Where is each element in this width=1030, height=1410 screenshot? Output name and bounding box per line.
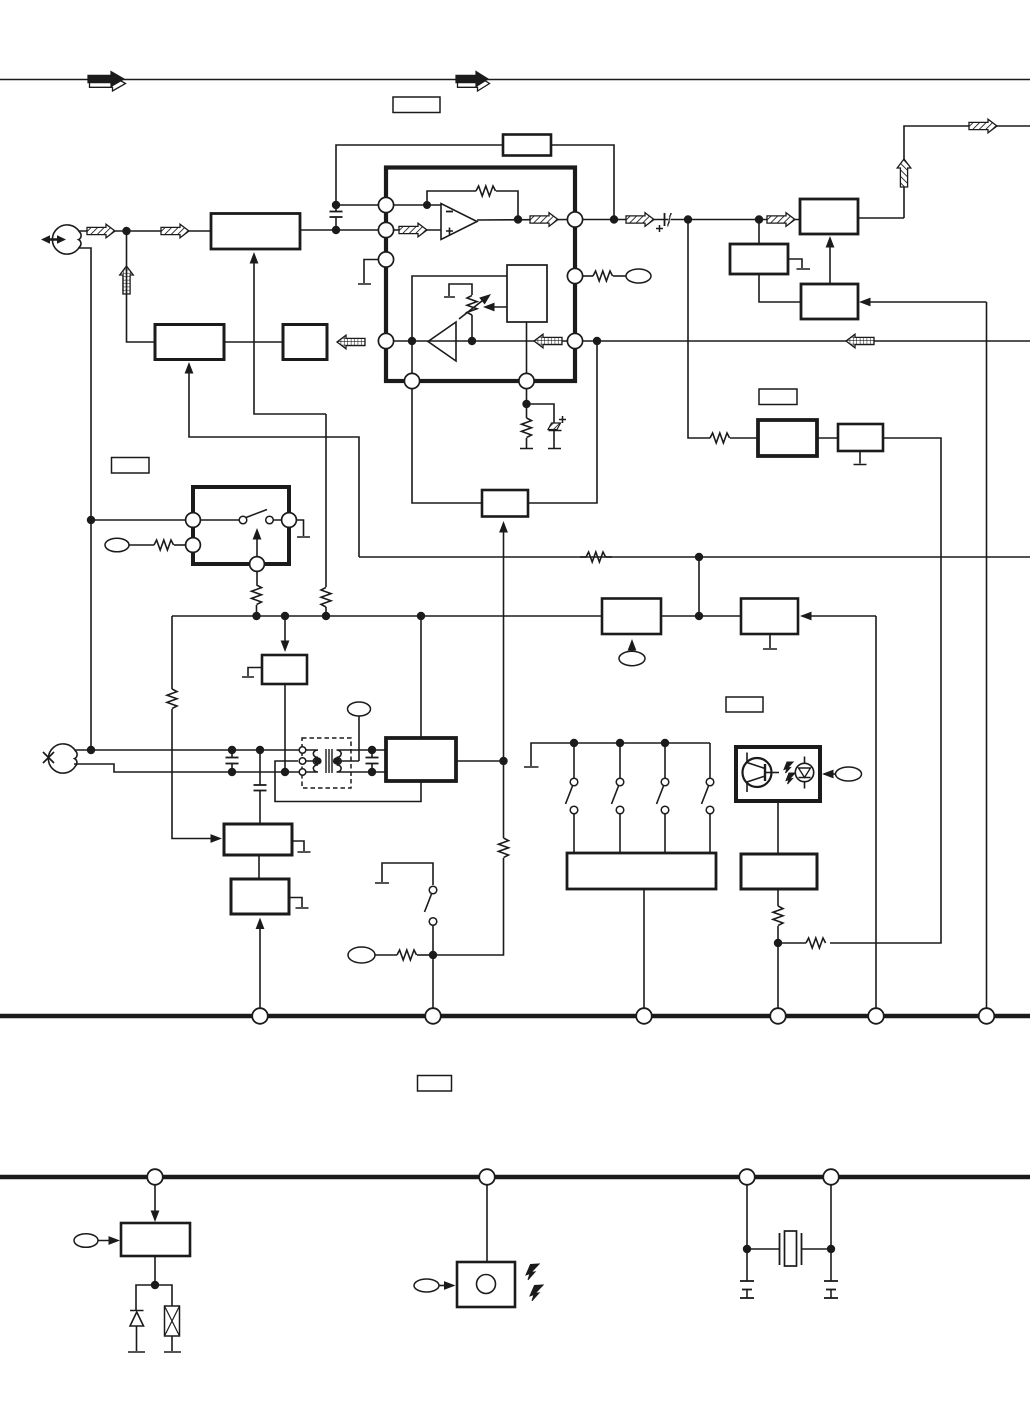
label box (top, near middle arrow) <box>393 97 440 113</box>
ellipse label + arrow into regulator <box>74 1234 120 1248</box>
ground stub at switch box right pin <box>297 520 310 537</box>
capacitor C5 (tip to box M) <box>254 750 267 824</box>
bus1 terminal 3 <box>636 1008 652 1024</box>
wire: block O to bus <box>643 889 645 1016</box>
diode D1 (to ground) <box>128 1285 155 1352</box>
resistor R8 into block G <box>710 433 730 443</box>
series electrolytic cap C3 with plus <box>656 213 671 232</box>
photon arrows inside P <box>784 762 795 784</box>
node: rail junction (box L leg) <box>417 612 425 620</box>
wire: IC output line to block D <box>583 219 800 221</box>
T1 core <box>326 749 332 773</box>
wire: T1 secondary to box L <box>351 750 387 772</box>
control arrow from U1b into attenuator <box>483 303 507 312</box>
capacitor C4 (across line) <box>226 750 239 772</box>
T1 primary winding <box>305 750 318 772</box>
bus1 terminal 4 <box>770 1008 786 1024</box>
node: rail junction (switch leg) <box>252 612 260 620</box>
wire: block L right to AGC vertical <box>456 760 504 762</box>
node: rail junction (dial amp leg) <box>281 612 289 620</box>
variable attenuator (vertical resistor with arrow) <box>444 284 494 341</box>
key switch 2 <box>612 743 624 853</box>
signal-flow block arrow (left) on top rail <box>88 72 126 92</box>
wire+arrow: bus2 down into regulator box <box>151 1185 160 1222</box>
wire: bus2 to crystal right <box>830 1185 832 1249</box>
node: crystal right junction <box>827 1245 835 1253</box>
wire: control corner branch to blocks G area <box>688 220 710 439</box>
resistor R2 at pin 6 <box>593 271 613 281</box>
plus sign U1a <box>446 228 453 235</box>
block H <box>838 424 883 451</box>
node: junction minus line <box>332 201 340 209</box>
block E (bias) <box>730 244 788 274</box>
wire: block G to block H <box>817 437 838 439</box>
IR module box <box>457 1262 515 1307</box>
wire: pin 8 down to AGC box <box>412 389 482 503</box>
ground stub at IC pin 3 <box>358 260 386 285</box>
wire: block H right, down to feedback resistor <box>830 438 941 943</box>
wire: volume rail down to J1-K1 link <box>698 557 700 616</box>
wire: pin 9 to bias network <box>526 389 528 404</box>
wire: volume rail to right edge <box>359 556 1030 558</box>
wire: resistor down and left to mic node <box>437 858 504 955</box>
supply bus 1 (thick) <box>0 1014 1030 1019</box>
node: secondary tap <box>333 757 340 764</box>
IC pin 8 (bottom left) <box>404 373 419 388</box>
wire: control vertical from mute rail up <box>325 607 327 616</box>
resistor R10 (AGC leg) <box>499 838 509 858</box>
wire: AGC vertical down through resistor <box>503 761 505 838</box>
wire: top-right line going off right edge <box>904 126 1030 218</box>
resistor R6 <box>154 540 174 550</box>
switch contact a <box>239 516 247 524</box>
wire: ring line to transformer <box>74 764 303 772</box>
resistor R7 (below switch box) <box>252 585 262 605</box>
arrow up inside switch box <box>253 528 262 557</box>
switch box pin bottom <box>250 557 265 572</box>
internal control box U1b <box>507 265 547 322</box>
wire: rx pin down to bottom pin <box>411 341 413 381</box>
wire: bus2 down to IR module <box>486 1185 488 1262</box>
wire: resistor to ellipse label <box>613 275 626 277</box>
node: AGC vertical junction <box>499 757 507 765</box>
block L (speech network, thick) <box>386 738 456 781</box>
capacitor C6 (across secondary) <box>366 750 379 772</box>
wire: dial amp box bottom down to tip line <box>284 684 286 772</box>
IR sensor circle <box>477 1275 496 1294</box>
block Q (ring detect, thick) <box>741 854 817 889</box>
node: cap junction on A1 output <box>332 226 340 234</box>
node: rx line junction right of IC <box>593 337 601 345</box>
wire: regulator bottom to protection pair <box>154 1256 156 1285</box>
wire: J1 to K1 <box>661 615 741 617</box>
switch box pin right <box>282 513 297 528</box>
ellipse label (pin 6 net) <box>626 269 651 283</box>
signal-flow block arrow (middle) on top rail <box>456 72 490 92</box>
label box (mid left) <box>112 458 150 474</box>
node: feedback tap on inverting input <box>423 201 431 209</box>
IC pin 9 (bottom right) <box>519 373 534 388</box>
arrow: rail junction down into dial amp box <box>281 616 290 652</box>
block J1 (tone gen) <box>602 599 661 635</box>
wire+arrow: control line up into block A1 bottom <box>250 252 326 414</box>
wire: tip line to transformer <box>75 749 303 751</box>
wire: node down to bus <box>432 955 434 1016</box>
key switch 4 <box>702 743 714 853</box>
ground stub at block N right <box>289 898 309 909</box>
node: junction after C3 <box>684 215 692 223</box>
T1 terminal mid <box>299 758 306 765</box>
checkered arrow (left) into block C <box>337 335 365 349</box>
node: tip cap junction <box>228 746 236 754</box>
load cap C8 (right, to ground) <box>824 1249 838 1298</box>
wire: rx top branch to control box <box>412 276 507 341</box>
label box (above K1) <box>726 697 763 712</box>
node: junction on tip line <box>122 227 130 235</box>
wire: bus2 to crystal left <box>746 1185 748 1249</box>
wire+arrow: vertical up into AGC box I1 <box>499 521 508 761</box>
key switch 3 <box>657 743 669 853</box>
supply bus 2 (thick) <box>0 1175 1030 1180</box>
bus2 terminal 1 <box>147 1169 163 1185</box>
striped arrow into block D <box>767 213 795 227</box>
striped arrow on top-right line <box>969 119 997 133</box>
T1 terminal bottom <box>299 769 306 776</box>
wire: pin 6 to resistor and label <box>583 275 593 277</box>
wire: ellipse to resistor <box>375 954 397 956</box>
node: feedback box junction <box>610 215 618 223</box>
key switch 1 <box>566 743 578 853</box>
wire: mute rail down into block L top <box>420 616 422 738</box>
surge absorber Z1 (crossed box, to ground) <box>155 1285 181 1352</box>
block D (line amp) <box>800 199 858 234</box>
wire: block D output to top-right <box>858 217 904 219</box>
wire: op-amp output to IC right pin <box>477 219 575 222</box>
IR photon arrows <box>526 1264 543 1301</box>
node: dial-tap junction on tip line <box>256 746 264 754</box>
wire: contacts to box pins <box>200 519 282 521</box>
checkered arrow (left) on rx line inside IC <box>534 334 562 348</box>
wire: control box bottom to IC bottom pin <box>526 322 528 381</box>
keypad row rail with ground at left <box>524 743 710 767</box>
T1 terminal top <box>299 747 306 754</box>
bus1 terminal 5 <box>868 1008 884 1024</box>
resistor R5 on volume rail <box>580 552 612 562</box>
block N (dialer, thick) <box>231 879 289 914</box>
block O (keypad encoder) <box>567 853 716 889</box>
resistor R4 (on control vertical) <box>321 587 331 607</box>
striped arrow into plus input <box>399 223 427 237</box>
wire: left rail to hook-switch box <box>91 519 193 521</box>
wire: tap down into block E <box>758 220 760 245</box>
wire: node down and right to block B1 <box>127 231 156 342</box>
IC U1 (main speakerphone IC, thick outline) <box>386 168 575 382</box>
wire+arrow: rail branch up into block B1 bottom <box>185 362 359 557</box>
ellipse label (hook switch control) <box>105 538 129 552</box>
node: output/feedback junction <box>514 215 522 223</box>
wire: resistor to node <box>417 954 433 956</box>
IC pin 5 (output) <box>567 212 582 227</box>
bus2 terminal 2 <box>479 1169 495 1185</box>
wire: AGC box right up to rx line <box>528 341 597 503</box>
node: rx line left junction <box>408 337 416 345</box>
minus sign U1a <box>446 211 453 213</box>
node: rail junction (control leg) <box>322 612 330 620</box>
switch contact b <box>266 516 274 524</box>
striped arrow B (node to block A1) <box>161 224 189 238</box>
node: block E tap junction <box>755 215 763 223</box>
block A1 (2-wire to 4-wire hybrid) <box>211 214 300 250</box>
ellipse label + arrow into box P <box>822 767 862 781</box>
wire: feedback network path over IC <box>336 145 614 219</box>
IC pin 3 <box>378 252 393 267</box>
resistor R3 (to ground) <box>520 404 533 449</box>
IC pin 6 <box>567 268 582 283</box>
ellipse label + arrow into J1 bottom <box>619 639 645 666</box>
block G (thick) <box>758 420 817 456</box>
node: protection junction <box>151 1281 159 1289</box>
label box (below bus 1) <box>418 1076 452 1092</box>
wire: mute rail (y616) <box>172 615 602 617</box>
bus1 terminal 6 <box>979 1008 995 1024</box>
op-amp U1a (triangle) <box>441 204 477 240</box>
capacitor C1 (between minus line and plus line) <box>330 205 343 230</box>
wire+resistor: rail left end down to box M arrow <box>167 616 222 843</box>
node: feedback junction <box>774 939 782 947</box>
IC pin 1 <box>378 197 393 212</box>
wire: minus line to IC pin 1 <box>336 204 386 206</box>
ground stub at block M right <box>292 841 311 852</box>
striped arrow on output inside IC <box>530 213 558 227</box>
node: junction between J1 and K1 <box>695 612 703 620</box>
node: crystal left junction <box>743 1245 751 1253</box>
block M (dial buffer, thick) <box>224 824 292 855</box>
regulator box R1 <box>121 1223 190 1256</box>
checkered arrow (left) on rx line right side <box>846 334 874 348</box>
node: key column 1 <box>570 739 578 747</box>
wire+arrow into K1 from right <box>800 612 876 621</box>
ground stub at dial amp box left <box>242 668 262 678</box>
checkered arrow (up) on branch below node <box>120 266 134 294</box>
wire: left rail vertical continues down <box>90 520 92 750</box>
striped arrow (vertical, up) on wire to top-right <box>897 159 911 187</box>
transformer T1 (dashed boundary) <box>302 738 351 788</box>
wire: vertical down to supply bus (x876) <box>875 616 877 1016</box>
wire: rx line from IC to right edge <box>583 340 1030 342</box>
electrolytic cap C2 (to ground) with plus <box>527 404 567 449</box>
crystal X1 <box>747 1231 831 1266</box>
node: primary tap <box>314 757 321 764</box>
wire: ellipse to resistor <box>129 544 154 546</box>
ground stub below K1 <box>763 634 777 649</box>
wire: non-inverting input line <box>394 229 441 231</box>
block B1 (rx filter) <box>155 325 224 360</box>
node: rx line attenuator junction <box>468 337 476 345</box>
ground stub at block E right <box>788 259 810 269</box>
ellipse label above T1 secondary + stem <box>348 702 371 761</box>
wire: inverting input line <box>394 204 441 206</box>
T1 secondary winding <box>337 750 360 772</box>
node: volume rail junction <box>695 553 703 561</box>
block K1 (amp) <box>741 599 798 635</box>
node: ring cap junction <box>228 768 236 776</box>
wire: resistor to box pin <box>174 544 185 546</box>
dial amp box (small, mid-left) <box>262 655 307 684</box>
block F (control) <box>801 284 858 319</box>
wire: receive path line across IC <box>394 340 575 342</box>
feedback resistor R-fb over op-amp <box>427 186 518 220</box>
wire: R9 to node <box>778 942 806 944</box>
block C1 (rx amp) <box>283 325 327 360</box>
LED inside P <box>795 757 813 789</box>
wire: main top horizontal rail <box>0 79 1030 81</box>
resistor R11 <box>397 950 417 960</box>
ellipse label (mic mute) <box>348 947 375 963</box>
wire: feedback node to bus <box>777 943 779 1016</box>
wire: box P to box Q <box>777 801 779 854</box>
wire: block B1 to block C1 <box>224 341 283 343</box>
striped arrow A (jack to node) <box>87 224 115 238</box>
wire+resistor: block Q to feedback node <box>773 889 783 943</box>
AGC box I1 <box>482 490 528 517</box>
wire+arrow: bus up into block N bottom <box>256 918 265 1017</box>
wire: resistor to block G <box>730 437 758 439</box>
connector J1 (top left, line jack) <box>41 225 81 254</box>
bus2 terminal 3 <box>739 1169 755 1185</box>
wire: resistor to mute rail <box>256 605 258 616</box>
node: key column 2 <box>616 739 624 747</box>
node: secondary cap junction top <box>368 746 376 754</box>
optocoupler box P (thick) <box>736 747 820 801</box>
ground stub below block H <box>854 451 867 465</box>
wire+arrow into block F from right vertical <box>859 298 987 307</box>
wire: block M to block N <box>258 855 260 879</box>
phototransistor inside P <box>743 753 780 793</box>
ellipse label + arrow into IR module <box>414 1279 456 1292</box>
feedback network box (above IC) <box>503 135 551 156</box>
arrow: block F up into block D <box>826 236 835 284</box>
bus1 terminal 1 <box>252 1008 268 1024</box>
switch box pin left 2 <box>186 538 201 553</box>
connector J2 (lower left, line in) <box>43 744 77 773</box>
hook-switch box S1 (thick) <box>193 487 289 564</box>
wire: bottom pin down to resistor <box>256 571 258 585</box>
striped arrow after output cap node <box>626 213 654 227</box>
wire: primary center tap loop under T1 <box>275 761 421 802</box>
node: left rail meets tip line <box>87 746 95 754</box>
node: secondary cap junction bottom <box>368 768 376 776</box>
wire: block A1 output to IC pin (with cap branch) <box>300 229 386 231</box>
bus1 terminal 2 <box>425 1008 441 1024</box>
label box (above block G) <box>759 389 797 405</box>
node: bias junction <box>522 400 530 408</box>
switch lever <box>246 510 267 518</box>
node: key column 3 <box>661 739 669 747</box>
IC pin 7 <box>567 333 582 348</box>
resistor R9 (feedback horizontal) <box>806 938 826 948</box>
IC pin 2 <box>378 222 393 237</box>
wire: connector J1 ring to long vertical <box>78 248 91 520</box>
wire: block E bottom to block F <box>759 274 801 302</box>
node: S2 junction <box>429 951 437 959</box>
wire: connector J1 to block A1 (tip line) <box>79 230 211 232</box>
load cap C7 (left, to ground) <box>740 1249 754 1298</box>
switch box pin left 1 <box>186 513 201 528</box>
wire: resistor top to corner <box>325 414 327 587</box>
amp U1c (triangle pointing left) <box>428 322 456 361</box>
bus2 terminal 4 <box>823 1169 839 1185</box>
switch S2 with ground loop <box>375 863 437 955</box>
node: left rail junction at y520 <box>87 516 95 524</box>
node: ring line junction to dial amp <box>281 768 289 776</box>
IC pin 4 <box>378 333 393 348</box>
wire: right-side vertical down to supply bus <box>986 302 988 1016</box>
